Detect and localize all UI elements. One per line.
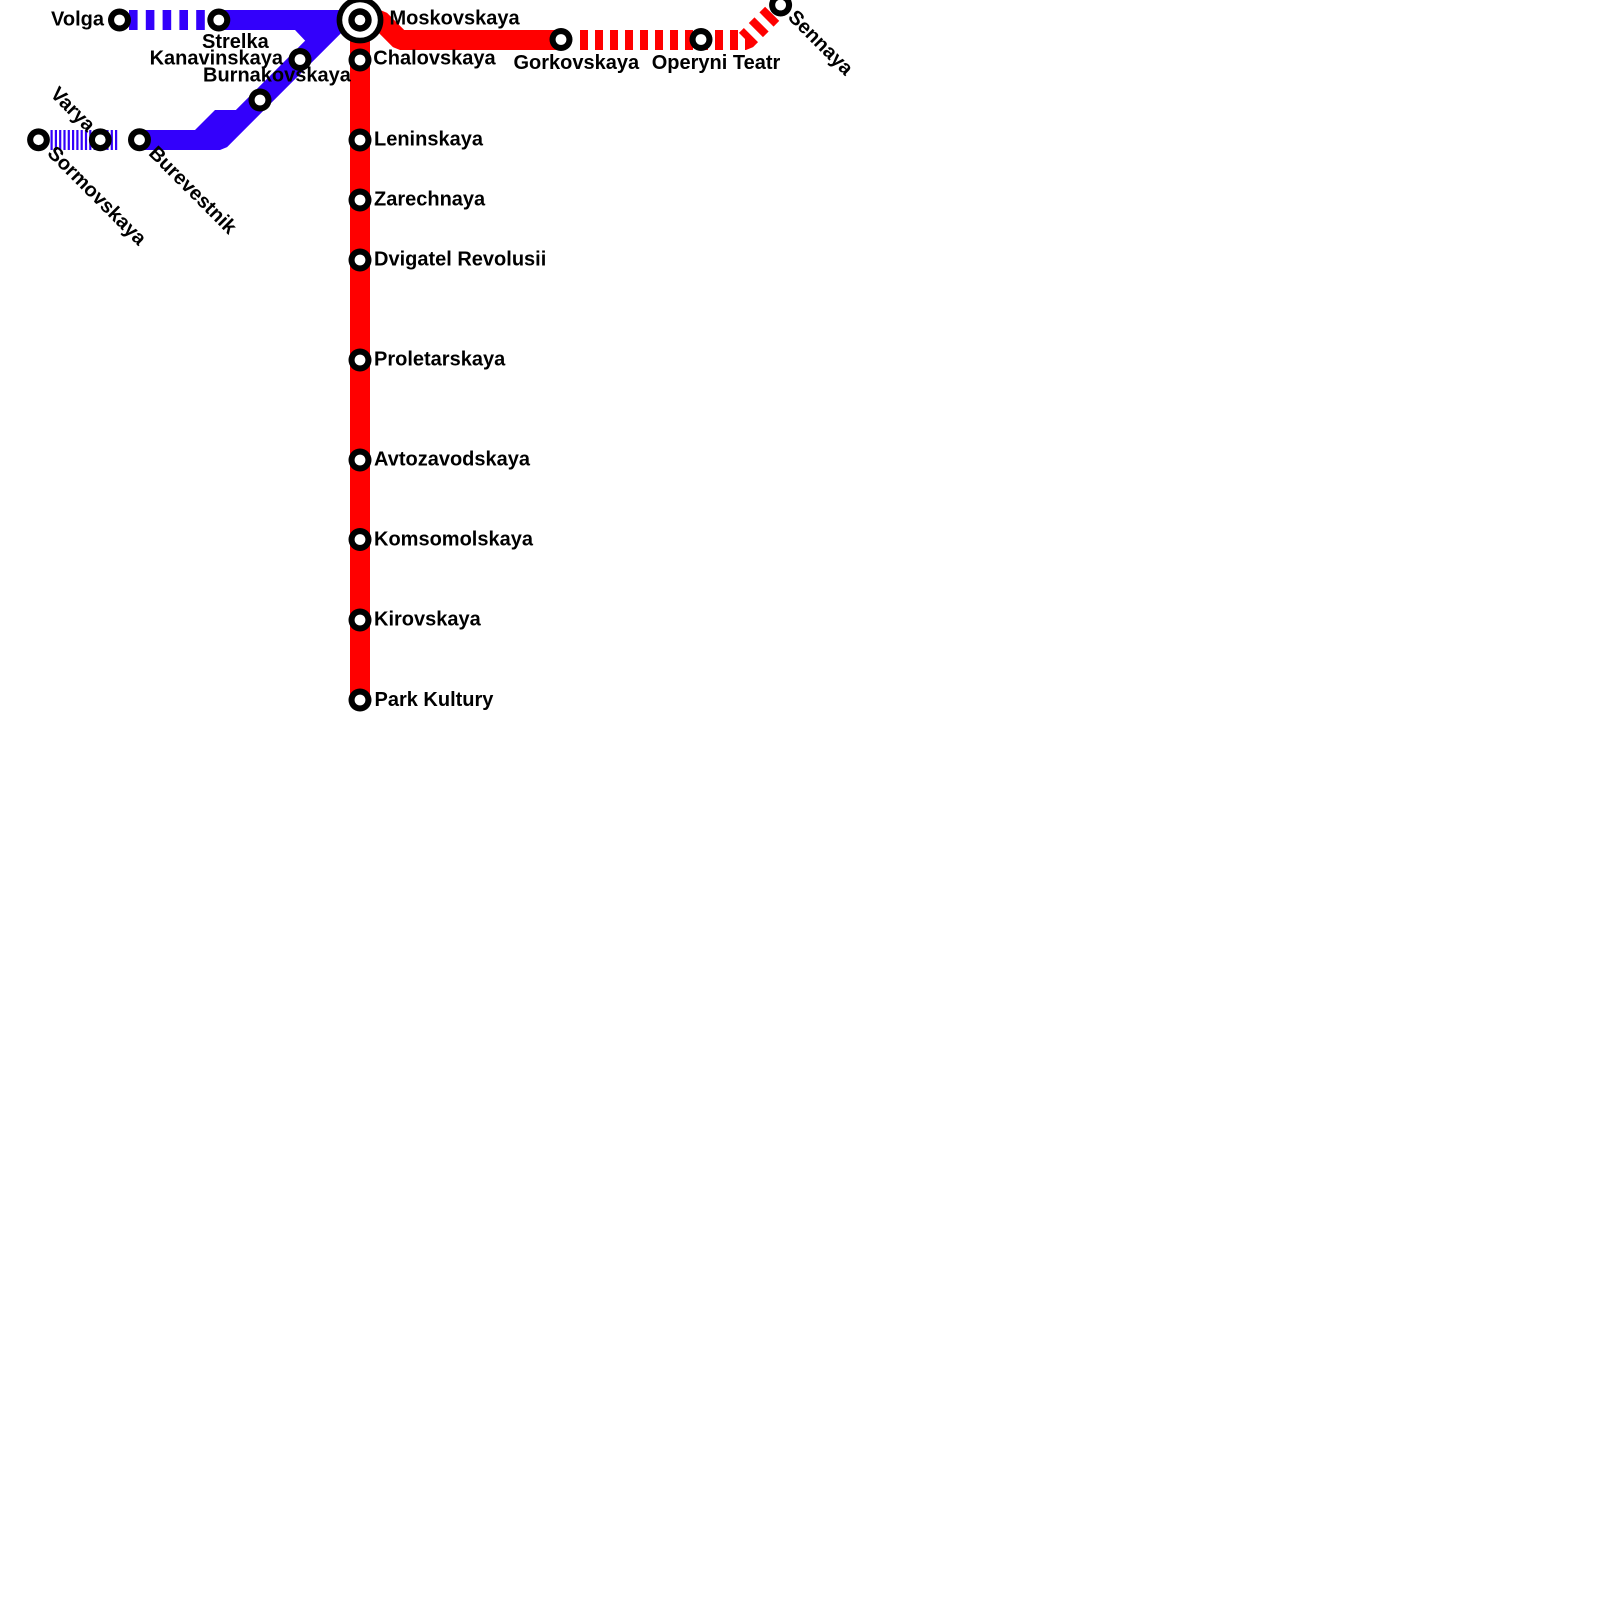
node: Volga station [108, 9, 131, 32]
node: Strelka station [207, 9, 230, 32]
wire: blue line 2 bend filler parallelogram [193, 110, 239, 132]
node: Chalovskaya station [349, 49, 372, 72]
wire: blue line 2 branch Moskovskaya-Kanavinskaya-Burnakovskaya-Burevestnik [139, 20, 352, 140]
svg-text:Leninskaya: Leninskaya [374, 129, 484, 151]
node: Kanavinskaya station [289, 48, 312, 71]
node: Sennaya station [769, 0, 792, 17]
svg-text:Chalovskaya: Chalovskaya [373, 48, 496, 70]
node: Proletarskaya station [349, 349, 372, 372]
svg-text:Dvigatel Revolusii: Dvigatel Revolusii [374, 249, 546, 271]
node: Moskovskaya transfer station [337, 0, 384, 43]
svg-text:Kirovskaya: Kirovskaya [374, 609, 482, 631]
svg-text:Burnakovskaya: Burnakovskaya [203, 65, 352, 87]
wire: blue striped planned segment Sormovskaya-Varya-Burevestnik [51, 130, 119, 150]
svg-text:Gorkovskaya: Gorkovskaya [513, 52, 640, 74]
svg-text:Zarechnaya: Zarechnaya [374, 189, 486, 211]
node: Burevestnik station [128, 128, 151, 151]
svg-text:Proletarskaya: Proletarskaya [374, 349, 506, 371]
node: Kirovskaya station [349, 609, 372, 632]
node: Leninskaya station [349, 129, 372, 152]
node: Sormovskaya station [27, 128, 50, 151]
svg-text:Volga: Volga [51, 8, 105, 30]
wire: blue line 2 solid segment Strelka to Moskovskaya [219, 10, 366, 30]
svg-text:Moskovskaya: Moskovskaya [390, 8, 521, 30]
node: Operyni Teatr station [690, 28, 713, 51]
node: Dvigatel Revolusii station [349, 249, 372, 272]
node: Avtozavodskaya station [349, 449, 372, 472]
svg-text:Operyni Teatr: Operyni Teatr [652, 52, 781, 74]
wire: blue dashed segment Volga to Strelka (under construction) [129, 10, 207, 30]
wire: red line 1 segment Moskovskaya to Gorkovskaya [360, 20, 561, 40]
node: Zarechnaya station [349, 189, 372, 212]
node: Komsomolskaya station [349, 528, 372, 551]
svg-text:Avtozavodskaya: Avtozavodskaya [374, 449, 531, 471]
svg-text:Park Kultury: Park Kultury [375, 689, 495, 711]
svg-text:Komsomolskaya: Komsomolskaya [374, 529, 534, 551]
node: Gorkovskaya station [550, 28, 573, 51]
node: Burnakovskaya station [249, 89, 272, 112]
node: Varya station [89, 128, 112, 151]
wire: red dashed segment Gorkovskaya-Operyni Teatr-Sennaya (planned) [580, 5, 781, 40]
wire: blue line 2 junction wedge at Moskovskaya [294, 29, 320, 41]
node: Park Kultury station [349, 689, 372, 712]
wire: red line 1 vertical Moskovskaya to Park Kultury [350, 15, 370, 700]
